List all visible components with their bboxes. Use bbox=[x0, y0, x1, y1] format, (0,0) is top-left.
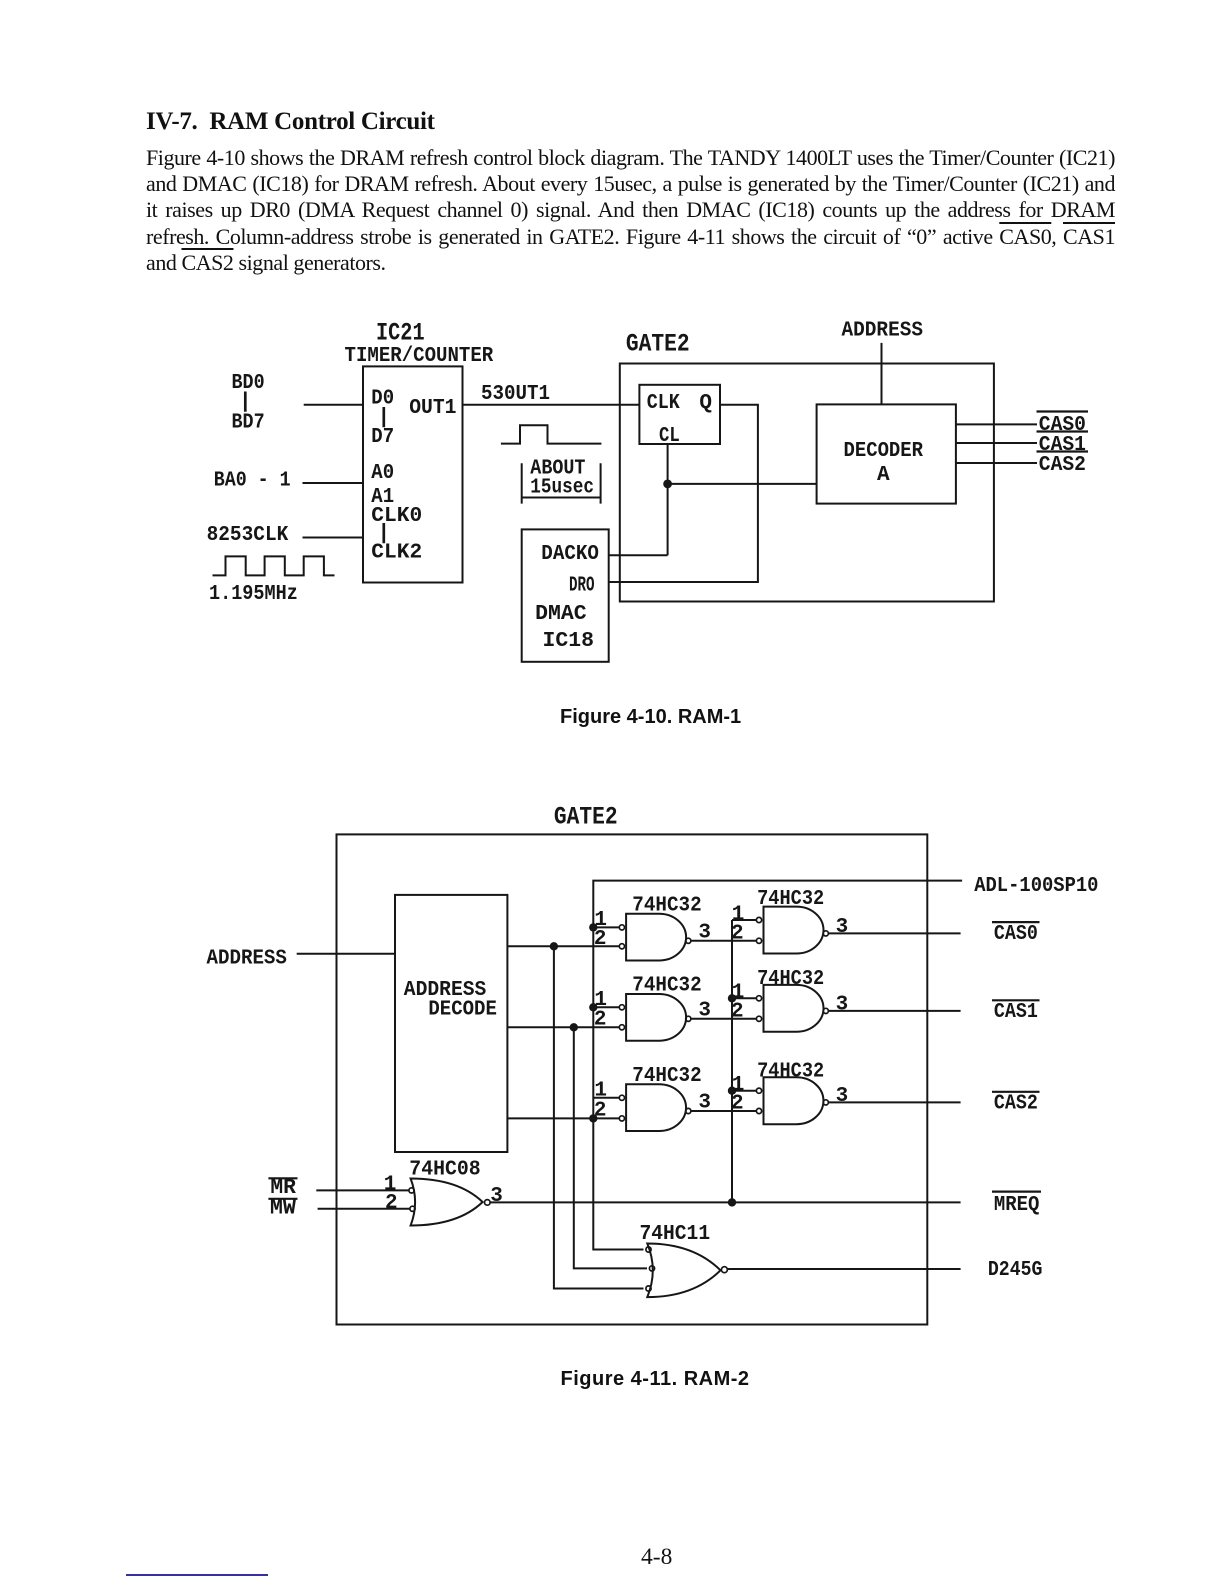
svg-text:D7: D7 bbox=[371, 426, 394, 449]
svg-text:1.195MHz: 1.195MHz bbox=[209, 583, 298, 606]
svg-text:OUT1: OUT1 bbox=[409, 397, 456, 420]
svg-text:8253CLK: 8253CLK bbox=[207, 524, 289, 547]
svg-text:3: 3 bbox=[698, 1000, 711, 1023]
svg-text:3: 3 bbox=[836, 916, 849, 939]
svg-text:A0: A0 bbox=[371, 462, 394, 485]
svg-text:2: 2 bbox=[731, 922, 744, 945]
svg-text:DECODER: DECODER bbox=[844, 440, 924, 463]
svg-text:IC21: IC21 bbox=[376, 319, 425, 348]
svg-text:CLK: CLK bbox=[647, 392, 680, 415]
svg-text:3: 3 bbox=[490, 1185, 503, 1208]
svg-text:3: 3 bbox=[836, 1085, 849, 1108]
svg-text:74HC11: 74HC11 bbox=[640, 1223, 711, 1246]
svg-text:74HC32: 74HC32 bbox=[757, 1060, 824, 1083]
svg-text:A: A bbox=[877, 464, 890, 487]
svg-text:3: 3 bbox=[836, 993, 849, 1016]
svg-text:ADDRESS: ADDRESS bbox=[842, 320, 924, 343]
svg-text:Q: Q bbox=[699, 392, 712, 415]
svg-text:74HC08: 74HC08 bbox=[409, 1158, 480, 1181]
svg-text:2: 2 bbox=[594, 1008, 607, 1031]
svg-text:2: 2 bbox=[385, 1192, 398, 1215]
svg-text:GATE2: GATE2 bbox=[554, 803, 618, 832]
svg-text:530UT1: 530UT1 bbox=[481, 383, 550, 406]
svg-text:3: 3 bbox=[698, 1092, 711, 1115]
svg-text:CAS2: CAS2 bbox=[1039, 454, 1086, 477]
svg-text:BD7: BD7 bbox=[232, 411, 265, 434]
svg-text:DECODE: DECODE bbox=[428, 998, 497, 1021]
svg-text:3: 3 bbox=[698, 922, 711, 945]
svg-text:74HC32: 74HC32 bbox=[757, 968, 824, 991]
svg-text:ADDRESS: ADDRESS bbox=[207, 948, 287, 971]
svg-text:IC18: IC18 bbox=[543, 630, 595, 653]
svg-text:DRO: DRO bbox=[569, 575, 595, 598]
svg-text:2: 2 bbox=[594, 1100, 607, 1123]
svg-text:15usec: 15usec bbox=[530, 477, 594, 500]
svg-text:BA0 - 1: BA0 - 1 bbox=[214, 469, 291, 492]
svg-text:2: 2 bbox=[731, 1000, 744, 1023]
svg-text:TIMER/COUNTER: TIMER/COUNTER bbox=[345, 345, 494, 368]
svg-text:CL: CL bbox=[659, 425, 680, 448]
svg-text:MW: MW bbox=[270, 1197, 296, 1220]
svg-text:74HC32: 74HC32 bbox=[632, 975, 701, 998]
svg-text:CAS1: CAS1 bbox=[994, 1001, 1038, 1024]
svg-text:DACKO: DACKO bbox=[541, 543, 599, 566]
svg-text:74HC32: 74HC32 bbox=[632, 1065, 701, 1088]
svg-text:DMAC: DMAC bbox=[535, 603, 587, 626]
svg-text:2: 2 bbox=[594, 928, 607, 951]
svg-text:74HC32: 74HC32 bbox=[757, 888, 824, 911]
svg-text:CAS2: CAS2 bbox=[994, 1093, 1038, 1116]
svg-text:CAS0: CAS0 bbox=[994, 923, 1038, 946]
svg-text:74HC32: 74HC32 bbox=[632, 895, 701, 918]
svg-text:2: 2 bbox=[731, 1093, 744, 1116]
svg-text:GATE2: GATE2 bbox=[626, 329, 690, 358]
svg-text:D245G: D245G bbox=[988, 1259, 1043, 1282]
svg-text:CLK2: CLK2 bbox=[371, 542, 422, 565]
svg-text:ADL-100SP10: ADL-100SP10 bbox=[974, 875, 1098, 898]
svg-text:MREQ: MREQ bbox=[994, 1194, 1040, 1217]
